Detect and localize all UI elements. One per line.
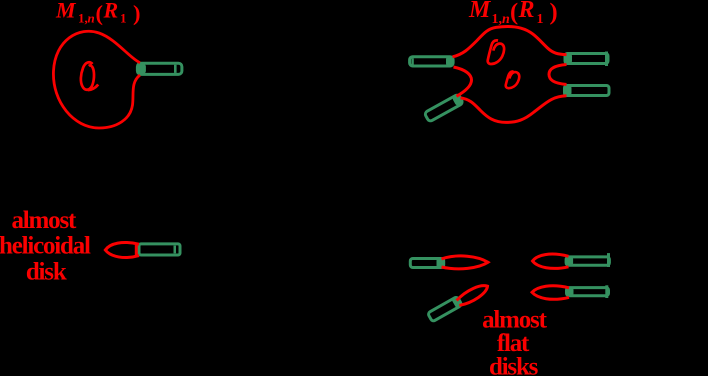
svg-text:helicoidal: helicoidal xyxy=(0,233,91,260)
svg-text:disk: disk xyxy=(26,259,67,286)
flat disk d: loop (points left) xyxy=(532,286,569,300)
helicoidal loop xyxy=(105,242,139,257)
tube 1 (top-left figure) xyxy=(137,63,182,74)
blob bottom arc xyxy=(461,96,567,123)
label M_{1,n}(R_1) top-left xyxy=(55,0,141,26)
genus marker in left blob xyxy=(81,62,98,90)
upper-left tube (right figure) xyxy=(410,56,454,66)
blob left concave dip xyxy=(454,67,472,96)
svg-text:1: 1 xyxy=(120,11,127,26)
genus marker 2 (right blob) xyxy=(506,71,519,88)
flat disk c (angled): tube xyxy=(427,296,462,323)
genus marker 1 (right blob) xyxy=(488,40,504,64)
label M_{1,n}(R_1) top-right xyxy=(468,0,558,27)
flat disk b: tube xyxy=(566,253,610,267)
blob right concave dip xyxy=(549,65,567,85)
svg-text:M: M xyxy=(468,0,492,23)
lower-right tube (right figure) xyxy=(565,86,610,96)
blob surface M1n left xyxy=(53,31,140,128)
svg-text:R: R xyxy=(103,0,119,23)
svg-text:almost: almost xyxy=(11,207,77,234)
blob surface top arc (right figure) xyxy=(453,27,567,57)
text: almost flat disks xyxy=(482,307,548,376)
svg-text:disks: disks xyxy=(489,354,539,376)
flat disk a (top-left of group): tube xyxy=(410,258,443,268)
svg-text:(: ( xyxy=(96,0,104,25)
helicoidal tube xyxy=(139,244,180,255)
lower-left angled tube (right figure) xyxy=(424,94,463,122)
text: almost helicoidal disk xyxy=(0,207,91,286)
flat disk d: tube xyxy=(567,285,609,298)
flat disk c: loop xyxy=(455,282,490,308)
svg-text:M: M xyxy=(55,0,77,23)
svg-text:1,: 1, xyxy=(492,12,503,27)
svg-text:): ) xyxy=(133,0,141,25)
svg-text:1,: 1, xyxy=(78,11,88,26)
flat disk b: loop (points left) xyxy=(533,254,569,268)
upper-right tube (right figure) xyxy=(565,52,608,67)
svg-text:1: 1 xyxy=(537,12,544,27)
svg-text:R: R xyxy=(518,0,535,23)
svg-text:(: ( xyxy=(510,0,518,26)
svg-text:n: n xyxy=(502,12,510,27)
svg-text:): ) xyxy=(550,0,558,26)
svg-text:n: n xyxy=(88,11,95,26)
flat disk a: loop (points right) xyxy=(442,256,489,269)
